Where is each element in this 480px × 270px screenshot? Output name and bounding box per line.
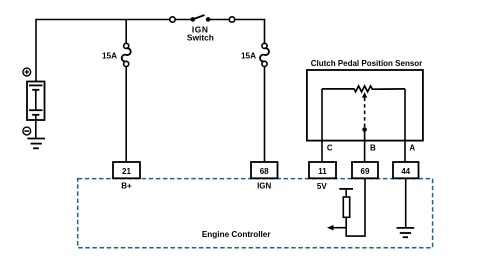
svg-text:B: B	[370, 144, 376, 153]
svg-text:15A: 15A	[241, 52, 256, 61]
svg-text:68: 68	[260, 167, 269, 176]
svg-text:21: 21	[122, 167, 131, 176]
svg-text:C: C	[327, 144, 333, 153]
svg-text:B+: B+	[121, 182, 132, 191]
svg-text:44: 44	[401, 167, 410, 176]
svg-text:5V: 5V	[317, 182, 327, 191]
svg-text:Engine Controller: Engine Controller	[202, 230, 272, 239]
svg-text:Switch: Switch	[187, 33, 214, 43]
svg-text:A: A	[409, 144, 415, 153]
svg-text:Clutch Pedal Position Sensor: Clutch Pedal Position Sensor	[311, 59, 423, 68]
svg-text:69: 69	[361, 167, 370, 176]
svg-text:IGN: IGN	[257, 182, 271, 191]
svg-text:11: 11	[318, 167, 327, 176]
svg-text:15A: 15A	[102, 52, 117, 61]
